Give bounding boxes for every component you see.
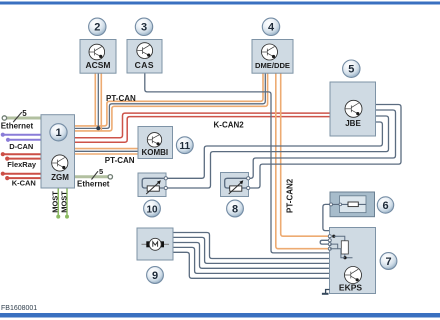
wire motor 9 to EKPS 2 [173,237,330,263]
svg-text:CAS: CAS [135,60,154,70]
EKPS pin circles [328,235,331,251]
wire JBE loop 2 to sensor 8 upper [248,110,395,178]
box KOMBI U11 [138,127,173,159]
icon motor 9 [142,238,170,250]
wire CAS to EKPS gray [145,73,330,253]
wire motor 9 to EKPS 5 [173,252,330,278]
svg-text:DME/DDE: DME/DDE [255,61,290,70]
ground below EKPS [322,290,330,294]
circle number 9 [147,267,164,284]
icon sensor 8 [225,177,250,194]
circle number 2 [89,18,106,35]
svg-text:6: 6 [382,200,388,212]
svg-text:5: 5 [348,64,354,76]
svg-text:3: 3 [141,22,147,34]
icon sensor 10 [142,177,167,194]
wire motor 9 to EKPS 3 [173,243,330,269]
wire JBE loop 1 to sensor 8 lower [248,105,401,189]
svg-text:ZGM: ZGM [51,173,69,182]
wire fuse 6 to EKPS [323,204,330,230]
bottom border bar [0,313,440,318]
box CAS U3 [127,40,162,74]
wire PT-CAN drop from ACSM orange left [94,73,96,127]
box fuse 6 outer [330,192,375,217]
box ACSM U2 [80,40,116,74]
wire motor 9 to EKPS 4 [173,247,330,273]
svg-text:Ethernet: Ethernet [77,179,110,188]
svg-text:4: 4 [268,22,275,34]
svg-text:7: 7 [385,256,391,268]
svg-text:JBE: JBE [345,119,361,128]
box JBE U5 [330,82,376,136]
wire PT-CAN drop from ACSM orange right [100,73,102,131]
icon transistor KOMBI [147,133,161,147]
wire PT-CAN gray middle (ZGM to KOMBI) [75,150,139,152]
icon transistor EKPS [345,267,362,284]
svg-text:FlexRay: FlexRay [7,160,37,169]
wire JBE loop 4 to sensor 10 upper [166,122,383,178]
box sensor 10 [138,173,166,197]
ethernet line right [75,171,113,179]
svg-text:K-CAN2: K-CAN2 [214,120,245,129]
icon transistor ZGM [52,155,68,171]
svg-text:9: 9 [152,270,158,282]
circle number 7 [380,253,397,270]
wire EKPS pin jumper [320,240,329,244]
MOST line 1 [56,188,60,219]
junction PT-CAN node [96,126,100,130]
box ZGM U1 [41,115,75,188]
wire PT-CAN2 orange inner (DME/DDE to EKPS) [276,74,330,249]
svg-text:PT-CAN: PT-CAN [105,156,135,165]
wire PT-CAN orange upper (ZGM to KOMBI) [75,148,139,150]
svg-text:ACSM: ACSM [85,60,110,70]
FlexRay line 2 [5,157,41,161]
svg-text:MOST: MOST [59,191,68,213]
icon transistor CAS [137,43,153,59]
top border bar [0,2,440,5]
box fuse 6 inner [340,196,367,213]
svg-text:EKPS: EKPS [339,283,362,293]
wire PT-CAN2 orange outer (DME/DDE to EKPS) [281,74,330,237]
svg-text:FB1608001: FB1608001 [1,305,37,312]
wire K-CAN2 red lower (ZGM to JBE) [75,117,331,143]
svg-text:K-CAN: K-CAN [12,178,36,187]
wire JBE loop 3 to sensor 10 lower [166,116,389,188]
svg-text:PT-CAN: PT-CAN [106,94,136,103]
svg-text:D-CAN: D-CAN [9,142,33,151]
circle number 5 [343,60,360,77]
svg-text:1: 1 [55,127,61,139]
svg-text:PT-CAN2: PT-CAN2 [285,178,294,213]
box DME/DDE U4 [252,40,293,74]
svg-text:8: 8 [232,204,238,216]
wire PT-CAN drop from ACSM gray [97,73,99,129]
wire PT-CAN orange lower (ZGM to KOMBI) [75,153,139,155]
icon transistor ACSM [89,44,105,60]
svg-text:2: 2 [94,22,100,34]
circle number 1 [50,124,67,141]
circle number 3 [135,18,152,35]
icon transistor DME/DDE [262,44,278,60]
D-CAN line 1 [1,133,41,137]
EKPS internal terminator resistor [330,235,353,260]
icon transistor JBE [345,100,362,117]
D-CAN line 2 [6,138,41,142]
svg-text:Ethernet: Ethernet [1,121,34,130]
wire PT-CAN orange lower (ZGM to DME/DDE) [75,74,268,131]
K-CAN line 2 [5,176,41,180]
FlexRay line 1 [1,152,41,156]
svg-text:5: 5 [22,109,27,118]
box EKPS U7 [330,228,376,294]
wire motor 9 to EKPS 1 [173,233,330,259]
circle number 10 [144,200,161,217]
wire PT-CAN gray middle (ZGM to DME/DDE) [75,74,266,129]
MOST line 2 [65,188,69,219]
wire PT-CAN orange upper (ZGM to DME/DDE) [75,74,264,126]
svg-text:MOST: MOST [51,191,60,213]
svg-text:KOMBI: KOMBI [141,148,168,157]
wire K-CAN2 red upper (ZGM to JBE) [75,113,331,138]
box sensor 8 [221,173,249,197]
svg-text:5: 5 [99,167,103,176]
circle number 8 [227,200,244,217]
svg-text:11: 11 [180,141,191,152]
circle number 11 [176,137,193,154]
fuse element F1 [330,202,367,207]
circle number 6 [377,197,393,213]
circle number 4 [262,18,279,35]
ethernet line left [2,112,41,122]
box motor 9 [137,228,173,260]
svg-text:10: 10 [146,204,158,215]
K-CAN line 1 [1,172,41,176]
